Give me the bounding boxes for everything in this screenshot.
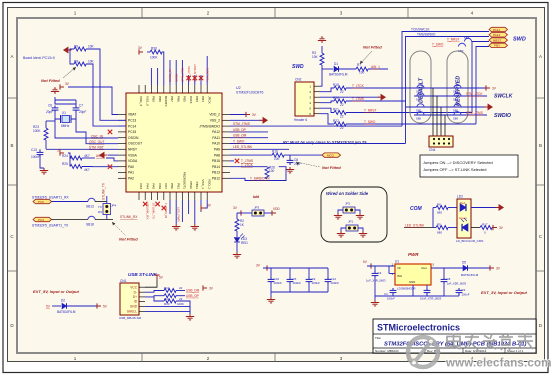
svg-text:Not Fitted: Not Fitted — [322, 165, 341, 170]
wire CN2 pin5 T_NRST — [320, 108, 472, 119]
resistor R8 — [74, 60, 95, 67]
svg-text:T_SWDIO_IN: T_SWDIO_IN — [250, 176, 270, 180]
wire STM_JTMS long run — [230, 122, 402, 126]
svg-text:VSS_1: VSS_1 — [201, 179, 205, 189]
svg-text:SWD: SWD — [292, 64, 304, 70]
svg-text:BAT60JFILM: BAT60JFILM — [57, 310, 76, 314]
svg-text:T_SWO_IN: T_SWO_IN — [164, 203, 168, 218]
U2 right pin names — [199, 113, 220, 181]
svg-text:T_JTMS: T_JTMS — [352, 97, 364, 101]
svg-text:Title:: Title: — [375, 336, 382, 340]
tags SWD top right — [489, 27, 508, 47]
svg-text:PA9: PA9 — [214, 148, 220, 152]
svg-text:T_JTCK: T_JTCK — [352, 84, 365, 88]
ground below U2 (right) — [191, 224, 199, 230]
svg-text:PA5: PA5 — [152, 183, 156, 189]
svg-text:Not Fitted: Not Fitted — [41, 78, 60, 83]
svg-text:A: A — [539, 54, 542, 59]
wires CN4 verticals (black) — [433, 88, 445, 136]
svg-text:PC13: PC13 — [128, 119, 136, 123]
jumper JP2 — [343, 202, 355, 214]
svg-text:RX: RX — [98, 210, 102, 214]
capacitor C10 — [268, 268, 283, 292]
svg-text:GND: GND — [130, 305, 138, 309]
svg-text:CN1: CN1 — [120, 279, 127, 283]
svg-text:T_JTCK: T_JTCK — [241, 163, 254, 167]
svg-text:BAT60JFILM: BAT60JFILM — [461, 273, 479, 277]
gnd arrow CN2 pin3 — [320, 95, 385, 100]
svg-text:10K: 10K — [312, 55, 319, 59]
svg-text:A: A — [10, 54, 13, 59]
solder bridge SB7 (NRST row) — [464, 36, 472, 41]
svg-text:JP3: JP3 — [254, 206, 260, 210]
svg-text:STM_RST: STM_RST — [89, 146, 104, 150]
svg-text:STM32F103CBT6: STM32F103CBT6 — [236, 91, 263, 95]
svg-text:OSC_IN: OSC_IN — [91, 134, 104, 138]
ground (USB) — [186, 314, 194, 320]
wire PB2 down — [181, 200, 183, 222]
svg-text:PC5: PC5 — [38, 200, 44, 204]
svg-text:SWDIO: SWDIO — [494, 113, 511, 119]
LED LD3 — [234, 231, 248, 245]
svg-text:VSSA: VSSA — [128, 153, 138, 157]
wire PB7 stub up — [169, 60, 171, 85]
U2 bottom pin stubs — [139, 192, 207, 200]
svg-text:LED_STLINK: LED_STLINK — [405, 223, 425, 227]
svg-text:1uF_X5R_0603: 1uF_X5R_0603 — [366, 279, 386, 283]
svg-text:Vout: Vout — [421, 266, 427, 270]
wire JP4 vertical — [106, 196, 108, 204]
X not fitted on PC15 — [108, 130, 112, 134]
U2 top pin names (rotated) — [139, 96, 211, 107]
ground (bank) — [267, 292, 275, 303]
resistor R25 — [62, 162, 90, 172]
tag AIN_1 (SWD) — [368, 65, 388, 69]
resistor R24 — [62, 154, 90, 160]
svg-text:RED: RED — [241, 241, 248, 245]
capacitor C12 — [325, 268, 340, 292]
svg-text:STM_JTMS: STM_JTMS — [233, 122, 250, 126]
svg-text:8MHz: 8MHz — [61, 124, 70, 128]
svg-text:PA14: PA14 — [493, 28, 500, 32]
wire LED_STLINK — [230, 145, 289, 149]
svg-text:10nF_X7R_0603: 10nF_X7R_0603 — [420, 297, 442, 301]
svg-text:PB11: PB11 — [195, 182, 199, 190]
svg-text:D1: D1 — [334, 62, 338, 66]
svg-text:T_SWO: T_SWO — [432, 43, 444, 47]
svg-text:PA15: PA15 — [189, 96, 193, 104]
X marks below U2 — [143, 202, 147, 206]
svg-text:C7: C7 — [79, 104, 83, 108]
connector CN4 — [429, 136, 453, 152]
svg-text:USB_DP: USB_DP — [186, 294, 199, 298]
svg-text:SWIM: SWIM — [174, 73, 178, 82]
svg-text:R11: R11 — [164, 286, 170, 290]
power 3V VDDA — [57, 149, 64, 156]
svg-text:OSCOUT: OSCOUT — [128, 142, 142, 146]
power 3V at VDD_2 — [230, 112, 257, 117]
svg-text:22: 22 — [340, 90, 344, 94]
svg-text:R19: R19 — [333, 83, 339, 87]
svg-text:Vin: Vin — [397, 266, 401, 270]
svg-text:LED_STLINK: LED_STLINK — [233, 145, 253, 149]
svg-text:R5: R5 — [437, 223, 441, 227]
capacitor C7 — [73, 104, 87, 115]
svg-text:SB7: SB7 — [464, 36, 470, 40]
resistor R23 vertical — [33, 125, 48, 140]
svg-text:STLINK_TX: STLINK_TX — [152, 203, 156, 219]
ground arrow left of R9 — [64, 47, 72, 52]
power 3V at R30 — [138, 46, 143, 55]
svg-text:PA13: PA13 — [493, 33, 500, 37]
svg-text:100nF: 100nF — [462, 293, 470, 297]
power 3V rail — [256, 264, 267, 271]
svg-text:Not Fitted: Not Fitted — [119, 237, 138, 242]
net labels below U2 (rotated red) — [146, 203, 181, 222]
svg-text:TMS/SWDIO: TMS/SWDIO — [417, 33, 436, 37]
svg-text:AIN_1: AIN_1 — [371, 65, 380, 69]
solder bridges SB1 SB3 SB5 SB8 (default col) — [416, 85, 424, 94]
svg-text:22: 22 — [340, 114, 344, 118]
svg-text:22: 22 — [340, 103, 344, 107]
svg-text:Green: Green — [459, 216, 467, 220]
svg-text:680: 680 — [437, 211, 442, 215]
svg-text:PWR: PWR — [408, 252, 419, 257]
svg-text:PA1: PA1 — [128, 171, 134, 175]
wire crystal to caps — [55, 113, 61, 120]
svg-text:T_SWO: T_SWO — [233, 139, 245, 143]
svg-text:D-: D- — [134, 290, 137, 294]
svg-text:AIN_1: AIN_1 — [96, 154, 105, 158]
svg-text:PB13: PB13 — [212, 171, 220, 175]
U2 right pin stubs — [222, 115, 230, 179]
svg-text:R20: R20 — [333, 96, 339, 100]
power 3V output — [468, 265, 501, 270]
svg-text:Wired on Solder Side: Wired on Solder Side — [326, 191, 369, 196]
svg-text:NRST: NRST — [493, 38, 501, 42]
svg-text:PA7: PA7 — [164, 183, 168, 189]
power 5V right of D2 — [67, 303, 108, 308]
svg-text:GND: GND — [409, 280, 415, 284]
svg-text:PB4: PB4 — [201, 96, 205, 102]
svg-text:SB18: SB18 — [86, 223, 94, 227]
svg-text:100nF: 100nF — [312, 281, 321, 285]
svg-text:JTMS/SWDIO: JTMS/SWDIO — [199, 124, 220, 128]
svg-text:LD_BICOLOR_CMS: LD_BICOLOR_CMS — [456, 239, 483, 243]
tag OSC_IN — [90, 134, 107, 139]
svg-text:PC15: PC15 — [128, 130, 136, 134]
svg-text:100: 100 — [269, 169, 275, 173]
wire 3V to VBAT pin — [68, 87, 118, 115]
svg-text:U2: U2 — [236, 86, 241, 90]
capacitor C8 (MCO) — [287, 158, 302, 166]
U2 left pin names — [128, 113, 142, 181]
wire PB11 down — [200, 200, 202, 212]
svg-text:R21: R21 — [333, 108, 339, 112]
svg-text:22: 22 — [340, 126, 344, 130]
ground below C8 — [286, 167, 294, 173]
wire USB_DM — [230, 134, 268, 138]
svg-text:SHELL: SHELL — [127, 310, 137, 314]
svg-text:SB3: SB3 — [416, 98, 421, 102]
svg-text:T_SWO: T_SWO — [364, 120, 376, 124]
svg-text:USB_DM: USB_DM — [233, 134, 247, 138]
svg-text:Jumpers OFF --> ST-LINK Select: Jumpers OFF --> ST-LINK Selected — [423, 167, 486, 172]
svg-text:LED_PWR: LED_PWR — [176, 207, 180, 222]
svg-text:VSS_3: VSS_3 — [145, 96, 149, 106]
svg-text:R25: R25 — [62, 162, 68, 166]
power 3V LD2 — [492, 225, 504, 230]
resistor R2 vertical (LED) — [235, 213, 245, 231]
svg-text:STLINK_RX: STLINK_RX — [120, 215, 138, 219]
wire CN2 pin1 to R3 — [320, 69, 322, 86]
wire JTCK stub up — [206, 56, 208, 85]
wire CN2 pin4 T_JTMS — [320, 96, 406, 107]
svg-text:PB6: PB6 — [176, 96, 180, 102]
svg-text:PB15: PB15 — [212, 159, 220, 163]
capacitor C9 — [306, 268, 321, 292]
svg-text:100K: 100K — [177, 302, 184, 306]
U2 left pin stubs — [118, 115, 126, 179]
svg-text:VCC: VCC — [130, 285, 137, 289]
capacitor C4 — [384, 285, 396, 301]
svg-text:CN4: CN4 — [429, 148, 436, 152]
solder bridge SB13 — [86, 198, 95, 208]
net STLINK_RX label — [110, 215, 148, 219]
svg-text:COM: COM — [410, 206, 423, 212]
svg-text:R13: R13 — [164, 302, 170, 306]
svg-text:100K: 100K — [150, 56, 158, 60]
svg-text:PA6: PA6 — [158, 183, 162, 189]
svg-text:OSCIN: OSCIN — [128, 136, 139, 140]
wire R30 to BOOT0 — [162, 52, 164, 85]
svg-text:STM_JTDI: STM_JTDI — [181, 68, 185, 83]
resistor R3 vertical — [312, 46, 324, 65]
svg-text:JP1: JP1 — [348, 220, 354, 224]
power 5V at CN1 VCC — [145, 275, 164, 287]
wire riser TCK/SWCLK — [402, 32, 489, 127]
diode D2 — [57, 299, 76, 315]
Not Fitted note (top-left) — [41, 67, 76, 83]
Not Fitted note (USART) — [112, 222, 138, 242]
svg-text:SWIM_IN: SWIM_IN — [168, 69, 172, 82]
svg-text:PA10: PA10 — [212, 142, 220, 146]
wire OSC_OUT run — [76, 119, 118, 144]
svg-text:Red: Red — [460, 201, 466, 205]
svg-text:PB7: PB7 — [170, 96, 174, 102]
jumper note box — [420, 155, 518, 177]
svg-text:T_NRST: T_NRST — [447, 38, 459, 42]
svg-text:USB_DP: USB_DP — [233, 128, 246, 132]
svg-text:U1: U1 — [395, 260, 399, 264]
resistor R30 — [150, 47, 162, 60]
svg-text:INH: INH — [397, 274, 402, 278]
power 3V to VBAT — [60, 82, 70, 90]
rail wires — [263, 267, 328, 269]
wire NRST run — [46, 148, 118, 150]
wire T_NRST riser — [472, 42, 489, 113]
U2 bottom pin names (rotated) — [139, 172, 211, 189]
svg-text:C13: C13 — [31, 148, 37, 152]
svg-text:X1: X1 — [62, 111, 66, 115]
resistor R6 — [433, 203, 457, 215]
svg-text:USB_DM: USB_DM — [186, 289, 200, 293]
svg-text:www.elecfans.com: www.elecfans.com — [445, 358, 552, 370]
diode D5 — [461, 261, 479, 278]
svg-text:MCO: MCO — [327, 153, 335, 157]
svg-text:SB8: SB8 — [416, 117, 421, 121]
T_JTCK tag on PB13 — [230, 163, 262, 167]
svg-text:4K7: 4K7 — [84, 168, 90, 172]
ground top of caps — [51, 88, 59, 94]
gnd arrow VSSA — [100, 152, 108, 157]
svg-text:VBAT: VBAT — [128, 113, 136, 117]
wire CN2 pin2 T_JTCK — [320, 83, 403, 94]
svg-text:PB1: PB1 — [176, 183, 180, 189]
wire MCO run — [230, 154, 272, 156]
wire riser TMS/SWDIO — [406, 37, 490, 144]
svg-text:1uF_X5R_0603: 1uF_X5R_0603 — [447, 282, 467, 286]
jumper JP4 — [98, 204, 117, 215]
svg-text:SB13: SB13 — [86, 205, 94, 209]
resistor R16 — [272, 150, 284, 162]
gnd arrow (jumper row3) — [485, 104, 493, 109]
svg-text:PB12: PB12 — [212, 177, 220, 181]
input rail wire — [367, 265, 395, 267]
diode D1 — [322, 62, 348, 77]
svg-text:USB_MB-05-SM: USB_MB-05-SM — [119, 316, 142, 320]
tag 5V left — [46, 305, 61, 309]
wire cap top rail — [55, 97, 76, 104]
svg-text:SWD: SWD — [513, 37, 526, 43]
svg-text:D+: D+ — [133, 295, 137, 299]
grounds JP2 — [334, 210, 343, 219]
svg-text:LD2: LD2 — [457, 195, 463, 199]
wire to JP3 — [237, 212, 252, 214]
svg-text:Number: MB1034: Number: MB1034 — [375, 349, 399, 353]
resistor R9 — [74, 45, 95, 52]
svg-text:R8: R8 — [74, 60, 78, 64]
wire T_SWDIO_IN loop — [230, 167, 286, 181]
connector CN2 Header6 — [294, 78, 320, 123]
svg-text:PA3: PA3 — [139, 183, 143, 189]
svg-text:R22: R22 — [333, 119, 339, 123]
wire PB10 down — [188, 200, 190, 214]
svg-text:EXT_3V, Input or Output: EXT_3V, Input or Output — [481, 290, 528, 295]
wire vertical join — [432, 208, 434, 228]
pin numbers U1 — [392, 263, 435, 277]
svg-text:T_NRST: T_NRST — [364, 109, 376, 113]
svg-text:100nF: 100nF — [274, 281, 283, 285]
svg-text:100: 100 — [359, 71, 365, 75]
tag STM_JTCK / port SWCLK — [466, 92, 513, 100]
svg-text:VDD: VDD — [273, 207, 280, 211]
jumper JP3 — [252, 206, 264, 217]
svg-text:PB5: PB5 — [183, 96, 187, 102]
svg-text:JTCK: JTCK — [207, 96, 211, 105]
svg-text:PB9: PB9 — [152, 96, 156, 102]
svg-text:100nF: 100nF — [331, 281, 340, 285]
capacitor C3 — [366, 266, 386, 296]
svg-text:NRST: NRST — [128, 148, 137, 152]
svg-text:TX: TX — [98, 205, 102, 209]
wire INH — [389, 273, 395, 275]
power 3V at VDD_1 — [201, 200, 212, 211]
svg-text:20pF: 20pF — [46, 110, 53, 114]
wire R23 top — [45, 121, 47, 128]
tag STM_JTMS / port SWDIO — [466, 111, 511, 119]
tag STM32F5_USART1_TX — [32, 217, 69, 227]
svg-text:TCK/SWCLK: TCK/SWCLK — [411, 28, 430, 32]
tag USB_DM — [186, 289, 200, 293]
U2 top pin stubs — [139, 85, 207, 93]
svg-text:PB2/BOOT1: PB2/BOOT1 — [183, 172, 187, 189]
svg-text:100nF: 100nF — [31, 155, 40, 159]
svg-text:JP4: JP4 — [111, 204, 117, 208]
svg-text:PA0: PA0 — [128, 165, 134, 169]
X not fitted on PA0 — [108, 165, 112, 169]
svg-text:Idd: Idd — [253, 194, 260, 199]
stadium DEFAULT — [410, 51, 431, 123]
wire CN2 pin6 T_SWO — [320, 114, 476, 130]
svg-text:10K: 10K — [88, 45, 95, 49]
svg-text:100K: 100K — [33, 129, 41, 133]
svg-text:CN2: CN2 — [295, 78, 302, 82]
power 3V (Idd) — [233, 206, 241, 216]
power 3V (jumper row1) — [486, 85, 497, 90]
wire RX row — [52, 201, 89, 203]
stadium RESERVED — [447, 51, 468, 123]
wire PB0 down — [169, 200, 171, 214]
power 5V input — [363, 260, 371, 269]
X marks above U2 — [186, 76, 190, 80]
capacitor C6b — [441, 268, 467, 296]
svg-text:Header 6: Header 6 — [294, 118, 307, 122]
ground above R3 — [318, 37, 326, 43]
tag USB_DP — [186, 294, 199, 298]
svg-text:PB0: PB0 — [170, 183, 174, 189]
wire PA15 stub up — [188, 75, 190, 85]
wire USB_DP — [230, 128, 268, 132]
svg-text:C4: C4 — [384, 292, 388, 296]
X + T_JTMS tag on PB14 — [230, 159, 253, 163]
svg-text:R9: R9 — [74, 45, 78, 49]
svg-text:22: 22 — [179, 286, 183, 290]
svg-text:10K: 10K — [88, 60, 95, 64]
wire R23 bottom to C13 — [45, 140, 47, 149]
ground below LD3 — [233, 243, 241, 258]
grounds JP1 — [337, 228, 346, 237]
wire OSC_IN run — [55, 119, 118, 138]
svg-text:PB8: PB8 — [158, 96, 162, 102]
capacitor C13 — [31, 148, 43, 159]
svg-text:100nF: 100nF — [387, 297, 395, 301]
svg-text:SB4: SB4 — [453, 98, 458, 102]
resistor R13 pull — [154, 297, 190, 314]
resistor R26 vertical — [265, 166, 275, 179]
svg-text:VSS_2: VSS_2 — [210, 119, 220, 123]
svg-text:PB3: PB3 — [195, 96, 199, 102]
svg-text:JP2: JP2 — [345, 202, 351, 206]
wire PB4 stub up — [200, 75, 202, 85]
ground below C13 — [40, 168, 48, 174]
svg-text:SB9: SB9 — [453, 117, 458, 121]
wire PB6 stub up — [175, 60, 177, 85]
svg-text:STM32F5_USART1_TX: STM32F5_USART1_TX — [32, 224, 69, 228]
net labels above U2 (rotated red) — [168, 64, 209, 82]
solder bridge SB18 — [86, 216, 95, 226]
LED LD2 bicolor — [456, 195, 483, 244]
